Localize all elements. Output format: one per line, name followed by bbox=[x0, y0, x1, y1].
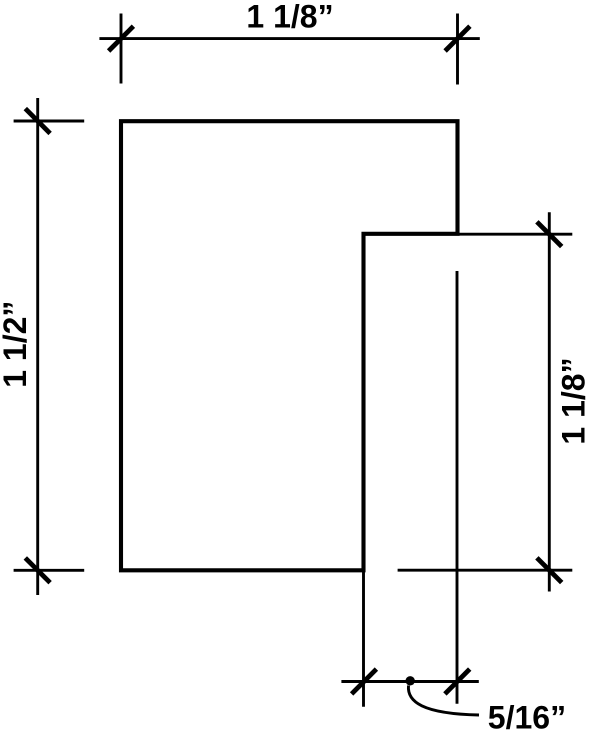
right dimension extension line top bbox=[460, 233, 573, 236]
svg-text:1 1/8”: 1 1/8” bbox=[246, 0, 333, 35]
moulding profile outline bbox=[121, 121, 458, 570]
left dimension line bbox=[36, 98, 39, 595]
top dimension extension line right bbox=[456, 14, 459, 85]
left dimension tick bottom bbox=[25, 558, 50, 583]
right dimension line bbox=[548, 212, 551, 591]
leader anchor dot bbox=[406, 676, 415, 685]
top dimension extension line left bbox=[120, 14, 123, 84]
bottom dimension extension line left bbox=[362, 571, 365, 707]
bottom dimension tick right bbox=[445, 669, 470, 694]
bottom dimension extension line right bbox=[456, 271, 459, 704]
bottom dimension line bbox=[341, 680, 478, 683]
top dimension line bbox=[99, 37, 479, 40]
bottom dimension tick left bbox=[352, 669, 377, 694]
left dimension extension line top bbox=[14, 120, 85, 123]
right dimension extension line bottom bbox=[398, 569, 573, 572]
leader curve bbox=[408, 686, 479, 716]
right dimension tick top bbox=[537, 222, 562, 247]
left dimension tick top bbox=[25, 109, 50, 134]
svg-text:1 1/2”: 1 1/2” bbox=[0, 301, 33, 388]
svg-text:1 1/8”: 1 1/8” bbox=[556, 357, 592, 444]
top dimension tick right bbox=[445, 26, 470, 51]
left dimension extension line bottom bbox=[14, 569, 85, 572]
svg-text:5/16”: 5/16” bbox=[488, 700, 566, 736]
right dimension tick bottom bbox=[537, 558, 562, 583]
top dimension tick left bbox=[109, 26, 134, 51]
